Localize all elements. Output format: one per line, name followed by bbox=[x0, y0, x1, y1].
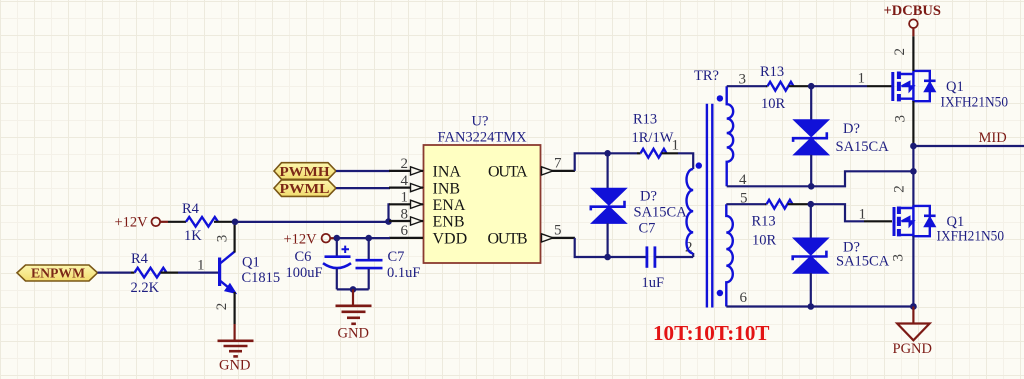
svg-text:IXFH21N50: IXFH21N50 bbox=[937, 229, 1005, 245]
svg-text:MID: MID bbox=[979, 130, 1007, 146]
svg-text:3: 3 bbox=[214, 235, 230, 243]
svg-text:R4: R4 bbox=[182, 201, 200, 217]
wire to Q1 gate (top) bbox=[811, 85, 867, 87]
pin 8 ENB bbox=[389, 206, 465, 230]
resistor R13 10R (top) bbox=[760, 64, 809, 112]
polarity dot (secondary bottom) bbox=[717, 290, 723, 296]
port PWMH bbox=[274, 163, 336, 180]
transient diode D? SA15CA (lower right) bbox=[793, 204, 890, 306]
MOSFET Q1 IXFH21N50 (lower) bbox=[894, 206, 1004, 245]
svg-text:+12V: +12V bbox=[115, 215, 149, 231]
wire ENPWM to R4 bbox=[98, 272, 132, 274]
svg-text:ENB: ENB bbox=[433, 214, 465, 231]
svg-text:1: 1 bbox=[401, 190, 409, 206]
wire node to R13 bbox=[608, 152, 637, 154]
op-amp U1: IC U? FAN3224TMX body bbox=[424, 114, 541, 263]
junction node TVS on pin6 rail bbox=[808, 303, 815, 310]
wire pin5 to R13 bbox=[726, 203, 765, 205]
resistor R4 2.2K bbox=[131, 251, 179, 296]
svg-text:C1815: C1815 bbox=[242, 270, 281, 286]
wire pin3 to R13 bbox=[727, 85, 766, 87]
port PWML bbox=[274, 180, 336, 197]
capacitor C7 0.1uF bbox=[356, 238, 421, 289]
svg-text:D?: D? bbox=[843, 121, 860, 137]
transformer secondary winding bottom (pins 5-6) bbox=[726, 204, 733, 306]
wire cap bottoms bbox=[337, 288, 369, 290]
svg-text:4: 4 bbox=[401, 173, 409, 189]
svg-text:10R: 10R bbox=[761, 96, 786, 112]
svg-text:6: 6 bbox=[740, 290, 748, 306]
svg-text:OUTA: OUTA bbox=[488, 164, 528, 181]
wire to Q1 gate (bottom) bbox=[811, 204, 864, 221]
wire emitter down to GND bbox=[234, 292, 236, 324]
svg-text:+12V: +12V bbox=[284, 231, 318, 247]
wire pin4 rail to mid node bbox=[727, 171, 914, 186]
port ENPWM bbox=[17, 265, 98, 281]
wire OUTB down to bottom rail bbox=[575, 238, 606, 257]
transformer core bbox=[707, 104, 712, 308]
svg-text:0.1uF: 0.1uF bbox=[387, 265, 420, 281]
junction node PGND bbox=[910, 303, 917, 310]
svg-text:SA15CA: SA15CA bbox=[634, 204, 688, 220]
svg-text:ENPWM: ENPWM bbox=[31, 266, 85, 281]
resistor R4 1K bbox=[168, 201, 235, 244]
pin 2 INA bbox=[389, 156, 461, 180]
wire R4 to Q1 base bbox=[178, 272, 218, 274]
svg-text:1uF: 1uF bbox=[642, 275, 665, 291]
junction node gate top bbox=[808, 83, 815, 90]
polarity dot (primary) bbox=[696, 162, 702, 168]
power port +DCBUS bbox=[884, 3, 941, 37]
svg-text:SA15CA: SA15CA bbox=[836, 253, 890, 269]
svg-text:100uF: 100uF bbox=[286, 265, 323, 281]
svg-text:INB: INB bbox=[433, 180, 461, 197]
svg-text:PGND: PGND bbox=[893, 341, 932, 357]
svg-text:PWMH: PWMH bbox=[280, 164, 331, 179]
svg-text:Q1: Q1 bbox=[242, 255, 260, 271]
wire lower source down to PGND bbox=[912, 236, 914, 307]
transformer secondary winding top (pins 3-4) bbox=[727, 86, 734, 186]
pin 5 OUTB bbox=[488, 222, 575, 247]
svg-text:C7: C7 bbox=[388, 249, 405, 265]
svg-text:3: 3 bbox=[739, 71, 747, 87]
svg-text:+DCBUS: +DCBUS bbox=[884, 3, 941, 19]
svg-text:R4: R4 bbox=[131, 251, 149, 267]
junction node C6 tap bbox=[334, 235, 341, 242]
resistor R13 10R (bottom) bbox=[752, 200, 810, 249]
svg-text:VDD: VDD bbox=[433, 230, 468, 247]
wire collector up to node bbox=[234, 221, 236, 252]
svg-text:R13: R13 bbox=[752, 214, 776, 230]
svg-text:10R: 10R bbox=[752, 232, 777, 248]
svg-text:10T:10T:10T: 10T:10T:10T bbox=[653, 321, 770, 345]
svg-text:D?: D? bbox=[640, 189, 657, 205]
wire MID to right edge bbox=[913, 145, 1024, 147]
capacitor C6 100uF bbox=[286, 238, 352, 289]
pin 6 VDD bbox=[389, 223, 467, 247]
capacitor C7 1uF (series) bbox=[639, 220, 694, 291]
wire down to lower drain bbox=[912, 146, 914, 208]
resistor R13 1R/1W bbox=[632, 112, 679, 158]
svg-text:5: 5 bbox=[554, 222, 562, 238]
svg-text:C6: C6 bbox=[295, 249, 312, 265]
svg-text:3: 3 bbox=[893, 115, 909, 123]
wire node to ENB bbox=[235, 221, 389, 223]
svg-text:1: 1 bbox=[858, 71, 866, 87]
wire source down to MID node bbox=[912, 101, 914, 146]
svg-text:2.2K: 2.2K bbox=[131, 280, 160, 296]
polarity dot (secondary top) bbox=[717, 95, 723, 101]
svg-text:7: 7 bbox=[554, 155, 562, 171]
power port +12V (VDD) bbox=[284, 231, 336, 247]
svg-text:PWML: PWML bbox=[280, 181, 330, 196]
svg-text:2: 2 bbox=[892, 185, 908, 193]
svg-text:FAN3224TMX: FAN3224TMX bbox=[438, 129, 528, 145]
MOSFET Q1 IXFH21N50 (upper) bbox=[893, 71, 1008, 111]
wire node to C7 bbox=[608, 256, 646, 258]
svg-text:1: 1 bbox=[197, 257, 205, 273]
ground GND (C6/C7) bbox=[336, 289, 372, 341]
svg-text:2: 2 bbox=[401, 156, 409, 172]
svg-text:U?: U? bbox=[472, 114, 489, 130]
transformer TR? primary winding bbox=[687, 169, 694, 253]
junction node TVS on pin4 rail bbox=[808, 183, 815, 190]
svg-text:1: 1 bbox=[672, 137, 680, 153]
transient diode D? SA15CA (middle) bbox=[591, 153, 687, 257]
svg-text:OUTB: OUTB bbox=[488, 230, 528, 247]
power port PGND bbox=[893, 307, 932, 358]
svg-text:Q1: Q1 bbox=[947, 214, 965, 230]
junction node GND stem bbox=[350, 286, 357, 293]
svg-text:TR?: TR? bbox=[694, 68, 719, 84]
junction node MID bbox=[910, 143, 917, 150]
wire R13 to primary pin 1 bbox=[678, 153, 693, 169]
svg-text:2: 2 bbox=[892, 48, 908, 56]
wire pin6 rail to PGND node bbox=[726, 305, 913, 307]
junction node ENB branch bbox=[385, 218, 392, 225]
svg-text:1: 1 bbox=[859, 207, 867, 223]
wire PWMH to INA bbox=[336, 170, 390, 172]
svg-text:R13: R13 bbox=[633, 112, 657, 128]
svg-text:8: 8 bbox=[401, 206, 409, 222]
wire +12V to VDD bbox=[335, 237, 390, 239]
svg-text:Q1: Q1 bbox=[946, 79, 964, 95]
pin 7 OUTA bbox=[488, 155, 575, 180]
svg-text:ENA: ENA bbox=[433, 197, 466, 214]
pin 1 ENA bbox=[389, 190, 466, 214]
svg-text:C7: C7 bbox=[639, 220, 656, 236]
svg-text:3: 3 bbox=[891, 254, 907, 262]
junction node gate bottom bbox=[808, 201, 815, 208]
power port +12V (left) bbox=[115, 215, 169, 231]
wire +DCBUS to drain bbox=[912, 36, 914, 71]
svg-text:GND: GND bbox=[219, 358, 250, 374]
junction node TVS bottom bbox=[604, 254, 611, 261]
svg-text:SA15CA: SA15CA bbox=[836, 139, 890, 155]
svg-text:1R/1W: 1R/1W bbox=[632, 130, 674, 146]
junction node TVS top bbox=[604, 150, 611, 157]
svg-text:GND: GND bbox=[338, 325, 369, 341]
ground GND (Q1 emitter) bbox=[218, 324, 254, 374]
pin 4 INB bbox=[389, 173, 460, 197]
wire PWML to INB bbox=[336, 187, 390, 189]
wire OUTA up to top rail bbox=[575, 153, 606, 171]
junction node pin4 branch bbox=[910, 168, 917, 175]
svg-text:R13: R13 bbox=[760, 64, 784, 80]
wire ENB node up to ENA bbox=[389, 204, 391, 222]
transient diode D? SA15CA (upper right) bbox=[793, 86, 889, 186]
svg-text:2: 2 bbox=[214, 303, 230, 311]
svg-text:1K: 1K bbox=[184, 228, 202, 244]
svg-text:6: 6 bbox=[401, 223, 409, 239]
transistor Q1 C1815 bbox=[220, 252, 236, 293]
svg-text:IXFH21N50: IXFH21N50 bbox=[941, 94, 1009, 110]
svg-text:INA: INA bbox=[433, 164, 462, 181]
junction node C7 tap bbox=[365, 235, 372, 242]
wire to primary pin 2 bbox=[692, 253, 694, 257]
junction node (R4/Q1 collector/ENB wire) bbox=[232, 219, 239, 226]
